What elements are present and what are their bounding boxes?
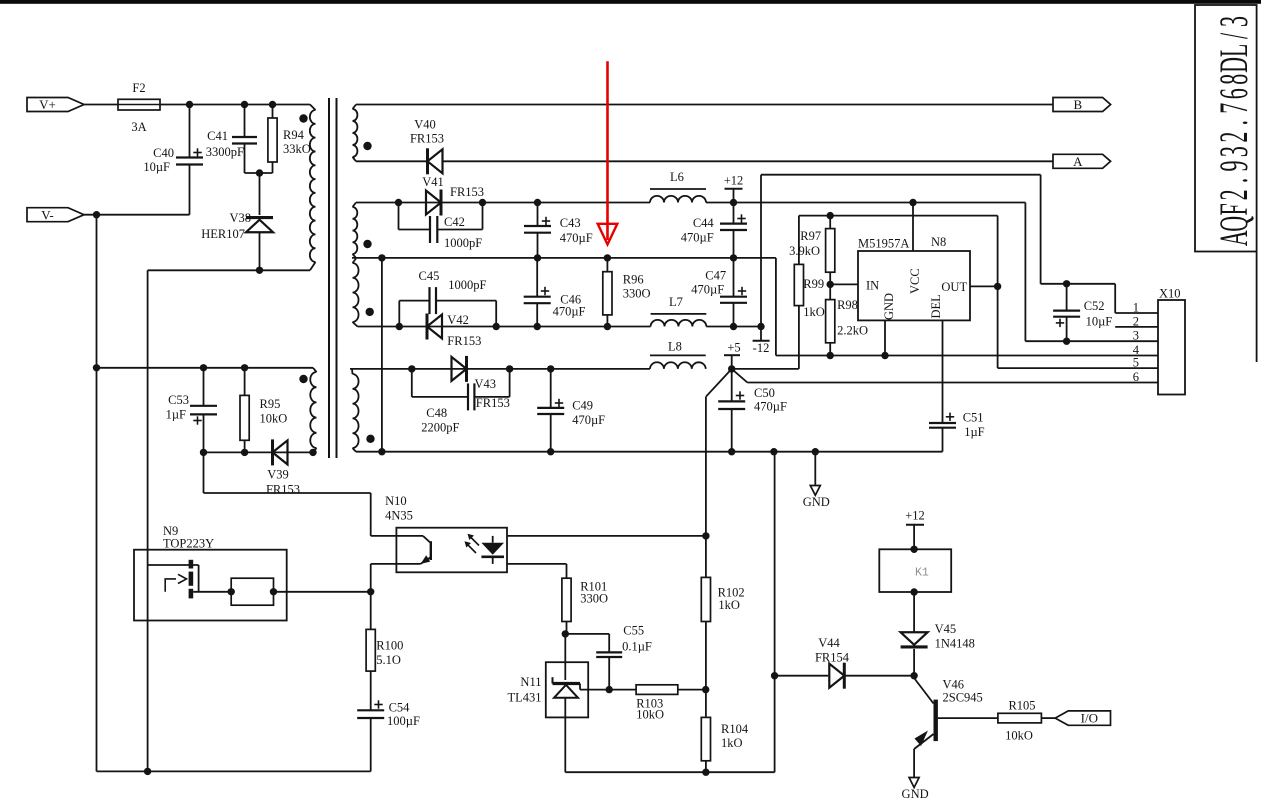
svg-text:1000pF: 1000pF [444, 236, 482, 250]
wire [1041, 717, 1055, 719]
svg-text:N11: N11 [520, 675, 541, 689]
resistor R95 10kO [244, 368, 246, 396]
wire secondary gnd [356, 451, 943, 453]
resistor R105 10kO [998, 713, 1042, 723]
diode V38 HER107 [259, 173, 261, 215]
node [730, 254, 737, 261]
wire [245, 172, 273, 174]
svg-text:470µF: 470µF [560, 231, 593, 245]
wire [845, 675, 914, 677]
svg-text:M51957A: M51957A [858, 237, 909, 251]
polarity dot [299, 375, 307, 383]
svg-text:FR153: FR153 [476, 396, 510, 410]
svg-text:6: 6 [1133, 370, 1139, 384]
svg-text:1N4148: 1N4148 [935, 637, 975, 651]
svg-text:N10: N10 [385, 494, 407, 508]
wire TL431 ref [579, 684, 581, 690]
node [728, 448, 735, 455]
border bar top [0, 0, 1261, 4]
resistor R102 1kO [701, 577, 710, 621]
capacitor C44 470uF [733, 203, 735, 224]
svg-text:1µF: 1µF [964, 425, 984, 439]
svg-text:R100: R100 [376, 638, 403, 652]
wire IN [830, 283, 858, 285]
node [144, 768, 151, 775]
node [378, 448, 385, 455]
svg-text:5.1O: 5.1O [376, 653, 401, 667]
transformer T1 primary winding [310, 105, 316, 111]
node [910, 546, 917, 553]
svg-text:10kO: 10kO [260, 412, 288, 426]
wire [160, 104, 310, 106]
terminal A [1053, 154, 1111, 168]
polarity dot [363, 240, 371, 248]
wire [706, 326, 761, 328]
capacitor C55 0.1uF [565, 633, 609, 635]
inductor L7 [651, 320, 707, 327]
node [395, 199, 402, 206]
svg-text:2.2kO: 2.2kO [837, 324, 868, 338]
node [604, 323, 611, 330]
wire X10 pin5 [998, 367, 1158, 369]
diode V41 FR153 [426, 191, 441, 215]
wire X10 pin1 [1115, 312, 1158, 314]
frame line [1256, 252, 1258, 363]
svg-text:R97: R97 [800, 229, 821, 243]
svg-text:C51: C51 [963, 411, 984, 425]
svg-text:1: 1 [1133, 301, 1139, 315]
svg-text:FR153: FR153 [450, 185, 484, 199]
transformer secondary winding w1 [353, 105, 357, 110]
svg-text:F2: F2 [132, 81, 145, 95]
wire V44 riser [774, 452, 776, 773]
wire +5 diag to R102 [706, 369, 732, 397]
node [378, 254, 385, 261]
svg-text:VCC: VCC [908, 268, 922, 294]
svg-text:330O: 330O [580, 592, 608, 606]
svg-text:470µF: 470µF [691, 282, 724, 296]
svg-text:I/O: I/O [1081, 711, 1098, 726]
svg-text:3: 3 [1211, 146, 1256, 157]
svg-text:L7: L7 [669, 295, 683, 309]
resistor R97 3.9kO [829, 216, 831, 229]
node +12 [730, 199, 737, 206]
IC N11 TL431 [564, 634, 566, 680]
wire V44 line [775, 675, 829, 677]
svg-text:C44: C44 [693, 216, 715, 230]
fuse F2 3A [118, 99, 160, 110]
svg-text:C54: C54 [389, 701, 411, 715]
wire line4 -12 raw [358, 326, 651, 328]
node [269, 101, 276, 108]
node [241, 101, 248, 108]
node [770, 448, 777, 455]
transformer secondary winding w2 [353, 203, 357, 208]
svg-text:V-: V- [41, 207, 54, 222]
annotation arrow red [606, 61, 609, 240]
node [241, 364, 248, 371]
node [702, 769, 709, 776]
svg-text:3: 3 [1133, 329, 1139, 343]
primary bottom wire [148, 269, 310, 271]
resistor R100 5.1O [370, 592, 372, 630]
svg-text:GND: GND [803, 495, 830, 509]
wire line3 gnd mid [352, 257, 776, 259]
svg-text:Q: Q [1211, 216, 1256, 232]
ground GND transistor [909, 778, 919, 788]
wire VCC pin [912, 203, 914, 252]
svg-text:C43: C43 [560, 216, 581, 230]
svg-text:9: 9 [1211, 160, 1256, 171]
svg-text:V39: V39 [267, 468, 289, 482]
power -12 [760, 327, 762, 341]
svg-text:R95: R95 [260, 397, 281, 411]
terminal I/O [1055, 711, 1110, 725]
diode V45 1N4148 [913, 649, 915, 676]
svg-text:TL431: TL431 [507, 691, 541, 705]
resistor R98 2.2kO [829, 284, 831, 299]
svg-text:+12: +12 [905, 509, 925, 523]
power +12 relay [913, 525, 915, 550]
svg-text:2200pF: 2200pF [421, 421, 459, 435]
resistor R96 330O [606, 258, 608, 272]
wire GND pin [884, 320, 886, 355]
wire aux bottom [204, 451, 314, 453]
svg-text:330O: 330O [623, 287, 651, 301]
wire center tap gnd [381, 258, 383, 452]
terminal V+ [27, 98, 84, 112]
relay K1 [879, 549, 951, 592]
svg-text:R98: R98 [837, 298, 858, 312]
svg-text:HER107: HER107 [201, 227, 245, 241]
opto led [492, 536, 494, 543]
svg-text:K1: K1 [915, 567, 929, 580]
wire line3 to pin4 [775, 258, 777, 356]
node C52 top [1063, 280, 1070, 287]
wire DEL pin [942, 320, 944, 423]
transistor V46 2SC945 [913, 676, 915, 678]
svg-text:2: 2 [1211, 189, 1256, 200]
wire emitter [371, 563, 397, 565]
polarity dot [366, 435, 374, 443]
node [309, 449, 316, 456]
svg-text:1kO: 1kO [718, 598, 740, 612]
resistor R104 1kO [701, 717, 710, 760]
svg-text:-12: -12 [753, 341, 770, 355]
node [200, 364, 207, 371]
svg-text:DEL: DEL [929, 294, 943, 318]
svg-text:V44: V44 [818, 636, 840, 650]
capacitor C51 1uF [929, 422, 956, 424]
node [534, 254, 541, 261]
terminal V- [27, 208, 84, 222]
node [256, 169, 263, 176]
transformer secondary winding w4 [351, 369, 354, 374]
TOP223Y mosfet [148, 564, 199, 566]
node [534, 199, 541, 206]
node [200, 449, 207, 456]
svg-text:R99: R99 [803, 277, 824, 291]
ground GND [814, 452, 816, 486]
node [606, 686, 613, 693]
transformer auxiliary winding [313, 368, 317, 372]
svg-text:33kO: 33kO [283, 142, 311, 156]
transformer secondary winding w3 [353, 259, 357, 264]
diode V44 FR154 [829, 664, 844, 688]
svg-text:GND: GND [882, 293, 896, 320]
wire line2 +12 raw [356, 202, 650, 204]
svg-text:470µF: 470µF [754, 400, 787, 414]
svg-text:6: 6 [1211, 88, 1256, 99]
wire +5 diag to pin6 [732, 369, 748, 383]
svg-text:3.9kO: 3.9kO [789, 244, 820, 258]
svg-text:3: 3 [1211, 16, 1256, 27]
svg-text:N8: N8 [931, 235, 946, 249]
svg-text:10kO: 10kO [636, 707, 664, 721]
svg-text:1000pF: 1000pF [448, 278, 486, 292]
wire opto collector net [203, 452, 205, 493]
wire OUT pin [970, 285, 998, 287]
node [730, 323, 737, 330]
power +5 [724, 354, 740, 356]
svg-text:470µF: 470µF [553, 305, 586, 319]
svg-text:1kO: 1kO [721, 736, 743, 750]
transformer core [328, 98, 330, 458]
node [604, 254, 611, 261]
diode V40 FR153 [428, 149, 443, 173]
wire primary bottom rail [97, 770, 371, 772]
node [93, 364, 100, 371]
wire +12 to pin3 [1024, 203, 1026, 342]
svg-text:C53: C53 [168, 393, 189, 407]
node OUT [994, 283, 1001, 290]
svg-text:V46: V46 [943, 678, 965, 692]
svg-text:R105: R105 [1008, 699, 1035, 713]
node [562, 630, 569, 637]
node control/emitter/R100 [367, 588, 374, 595]
capacitor C45 1000pF bypass [398, 301, 400, 327]
node [547, 448, 554, 455]
node +5 [728, 365, 735, 372]
svg-text:1µF: 1µF [166, 408, 186, 422]
capacitor C47 470uF [733, 258, 735, 297]
svg-text:10kO: 10kO [1005, 729, 1033, 743]
capacitor C46 470uF [536, 258, 538, 297]
svg-text:C45: C45 [419, 269, 440, 283]
node [241, 449, 248, 456]
terminal B [1053, 98, 1111, 112]
svg-text:V+: V+ [39, 97, 56, 112]
svg-text:2: 2 [1211, 132, 1256, 143]
svg-text:C42: C42 [444, 215, 465, 229]
TOP223Y control block [231, 578, 273, 605]
node [479, 199, 486, 206]
capacitor C41 3300pF [244, 105, 246, 138]
svg-text:10µF: 10µF [1086, 315, 1113, 329]
node R97 top [827, 212, 834, 219]
svg-text:IN: IN [866, 279, 879, 293]
node [396, 323, 403, 330]
polarity dot [299, 114, 307, 122]
wire emitter gnd [913, 749, 915, 778]
diode V42 FR153 [427, 315, 442, 339]
node [256, 267, 263, 274]
node base node [910, 672, 917, 679]
svg-text:.: . [1211, 178, 1256, 184]
wire +5 to R99 [732, 368, 799, 370]
svg-text:A: A [1073, 154, 1083, 169]
IC N9 TOP223Y box [134, 550, 287, 621]
node [408, 365, 415, 372]
node [93, 211, 100, 218]
svg-text:5: 5 [1133, 356, 1139, 370]
TL431 symbol [553, 682, 581, 685]
capacitor C40 10uF [189, 105, 191, 158]
wire control out [274, 591, 371, 593]
svg-text:FR153: FR153 [266, 483, 300, 497]
inductor L6 [650, 196, 706, 203]
svg-text:L: L [1211, 44, 1256, 57]
svg-text:V38: V38 [229, 211, 251, 225]
svg-text:V41: V41 [422, 175, 444, 189]
svg-text:7: 7 [1211, 103, 1256, 114]
wire out rail [799, 215, 998, 217]
IC N8 M51957A [858, 251, 970, 320]
svg-text:L6: L6 [670, 170, 684, 184]
wire base [938, 717, 998, 719]
svg-text:C40: C40 [153, 146, 174, 160]
power +12 [725, 188, 743, 190]
node VCC [909, 199, 916, 206]
svg-text:470µF: 470µF [572, 413, 605, 427]
node [702, 686, 709, 693]
svg-text:V43: V43 [475, 377, 497, 391]
opto transistor [396, 535, 423, 537]
svg-text:A: A [1211, 230, 1256, 246]
svg-text:R104: R104 [721, 722, 749, 736]
wire L8 line [350, 368, 650, 370]
svg-text:2: 2 [1133, 314, 1139, 328]
node [186, 101, 193, 108]
inductor L8 [650, 362, 706, 369]
wire V- vertical [96, 215, 98, 772]
wire led cathode [507, 563, 567, 565]
wire rail A [356, 160, 427, 162]
node chip gnd [881, 352, 888, 359]
polarity dot [366, 308, 374, 316]
svg-text:0.1µF: 0.1µF [622, 640, 652, 654]
opto light arrows [467, 544, 477, 554]
resistor R94 33kO [272, 105, 274, 119]
node V44 tap [771, 672, 778, 679]
node [812, 448, 819, 455]
resistor R101 330O [562, 578, 571, 621]
svg-text:C50: C50 [754, 386, 775, 400]
svg-text:X10: X10 [1159, 287, 1181, 301]
svg-text:3A: 3A [131, 120, 146, 134]
node [506, 365, 513, 372]
svg-text:C55: C55 [623, 624, 644, 638]
svg-text:L8: L8 [668, 340, 682, 354]
capacitor C50 470uF [731, 369, 733, 402]
resistor R103 10kO [636, 685, 678, 695]
svg-text:V42: V42 [447, 313, 469, 327]
svg-text:10µF: 10µF [143, 160, 170, 174]
svg-text:/: / [1211, 33, 1256, 39]
svg-text:+12: +12 [724, 174, 744, 188]
diode V43 FR153 [452, 357, 467, 381]
wire drain [147, 270, 149, 771]
wire aux top [97, 367, 314, 369]
svg-text:FR153: FR153 [447, 334, 481, 348]
resistor R99 1kO [798, 216, 800, 265]
wire X10 pin2 [1115, 326, 1158, 328]
connector X10 [1158, 300, 1185, 395]
capacitor C42 1000pF bypass [398, 203, 400, 230]
svg-text:.: . [1211, 120, 1256, 126]
svg-text:100µF: 100µF [387, 714, 420, 728]
svg-text:C41: C41 [207, 129, 228, 143]
polarity dot [363, 142, 371, 150]
svg-text:8: 8 [1211, 74, 1256, 85]
wire rail B [356, 104, 1053, 106]
svg-text:C48: C48 [426, 406, 447, 420]
wire led anode [507, 535, 706, 537]
svg-text:3300pF: 3300pF [206, 145, 244, 159]
IC N10 4N35 box [396, 528, 507, 573]
node [534, 323, 541, 330]
svg-text:V45: V45 [935, 622, 957, 636]
node R98 bottom [827, 352, 834, 359]
wire OUT vertical [997, 216, 999, 287]
svg-text:C47: C47 [705, 268, 726, 282]
svg-text:470µF: 470µF [681, 231, 714, 245]
svg-text:R96: R96 [623, 273, 644, 287]
svg-text:C52: C52 [1084, 299, 1105, 313]
diode V39 FR153 [273, 440, 288, 464]
svg-text:FR154: FR154 [815, 651, 850, 665]
capacitor C52 10uF [1066, 284, 1068, 311]
svg-text:2SC945: 2SC945 [943, 691, 983, 705]
svg-text:FR153: FR153 [410, 132, 444, 146]
capacitor C48 2200pF bypass [411, 369, 413, 397]
svg-text:4N35: 4N35 [385, 508, 413, 522]
svg-text:B: B [1073, 97, 1082, 112]
svg-text:+5: +5 [727, 341, 740, 355]
node IN divider [827, 281, 834, 288]
wire [84, 104, 118, 106]
svg-text:F: F [1211, 203, 1256, 215]
node C52 bottom [1063, 338, 1070, 345]
node [702, 532, 709, 539]
svg-text:TOP223Y: TOP223Y [163, 537, 214, 551]
wire X10 pin4 gnd [776, 355, 1158, 357]
node [493, 323, 500, 330]
wire [84, 214, 190, 216]
svg-text:GND: GND [902, 787, 929, 801]
node C49 top [547, 365, 554, 372]
TOP223Y source wire [193, 591, 231, 593]
wire -12 to C52/pin1 [760, 175, 762, 327]
node [910, 588, 917, 595]
title block AQF2.932.768DL/3 [1195, 5, 1257, 252]
svg-text:D: D [1211, 57, 1256, 73]
wire [443, 160, 1054, 162]
capacitor C53 1uF [203, 368, 205, 406]
svg-text:1kO: 1kO [803, 305, 825, 319]
TOP223Y gate arrow [165, 579, 176, 592]
svg-text:OUT: OUT [941, 280, 967, 294]
